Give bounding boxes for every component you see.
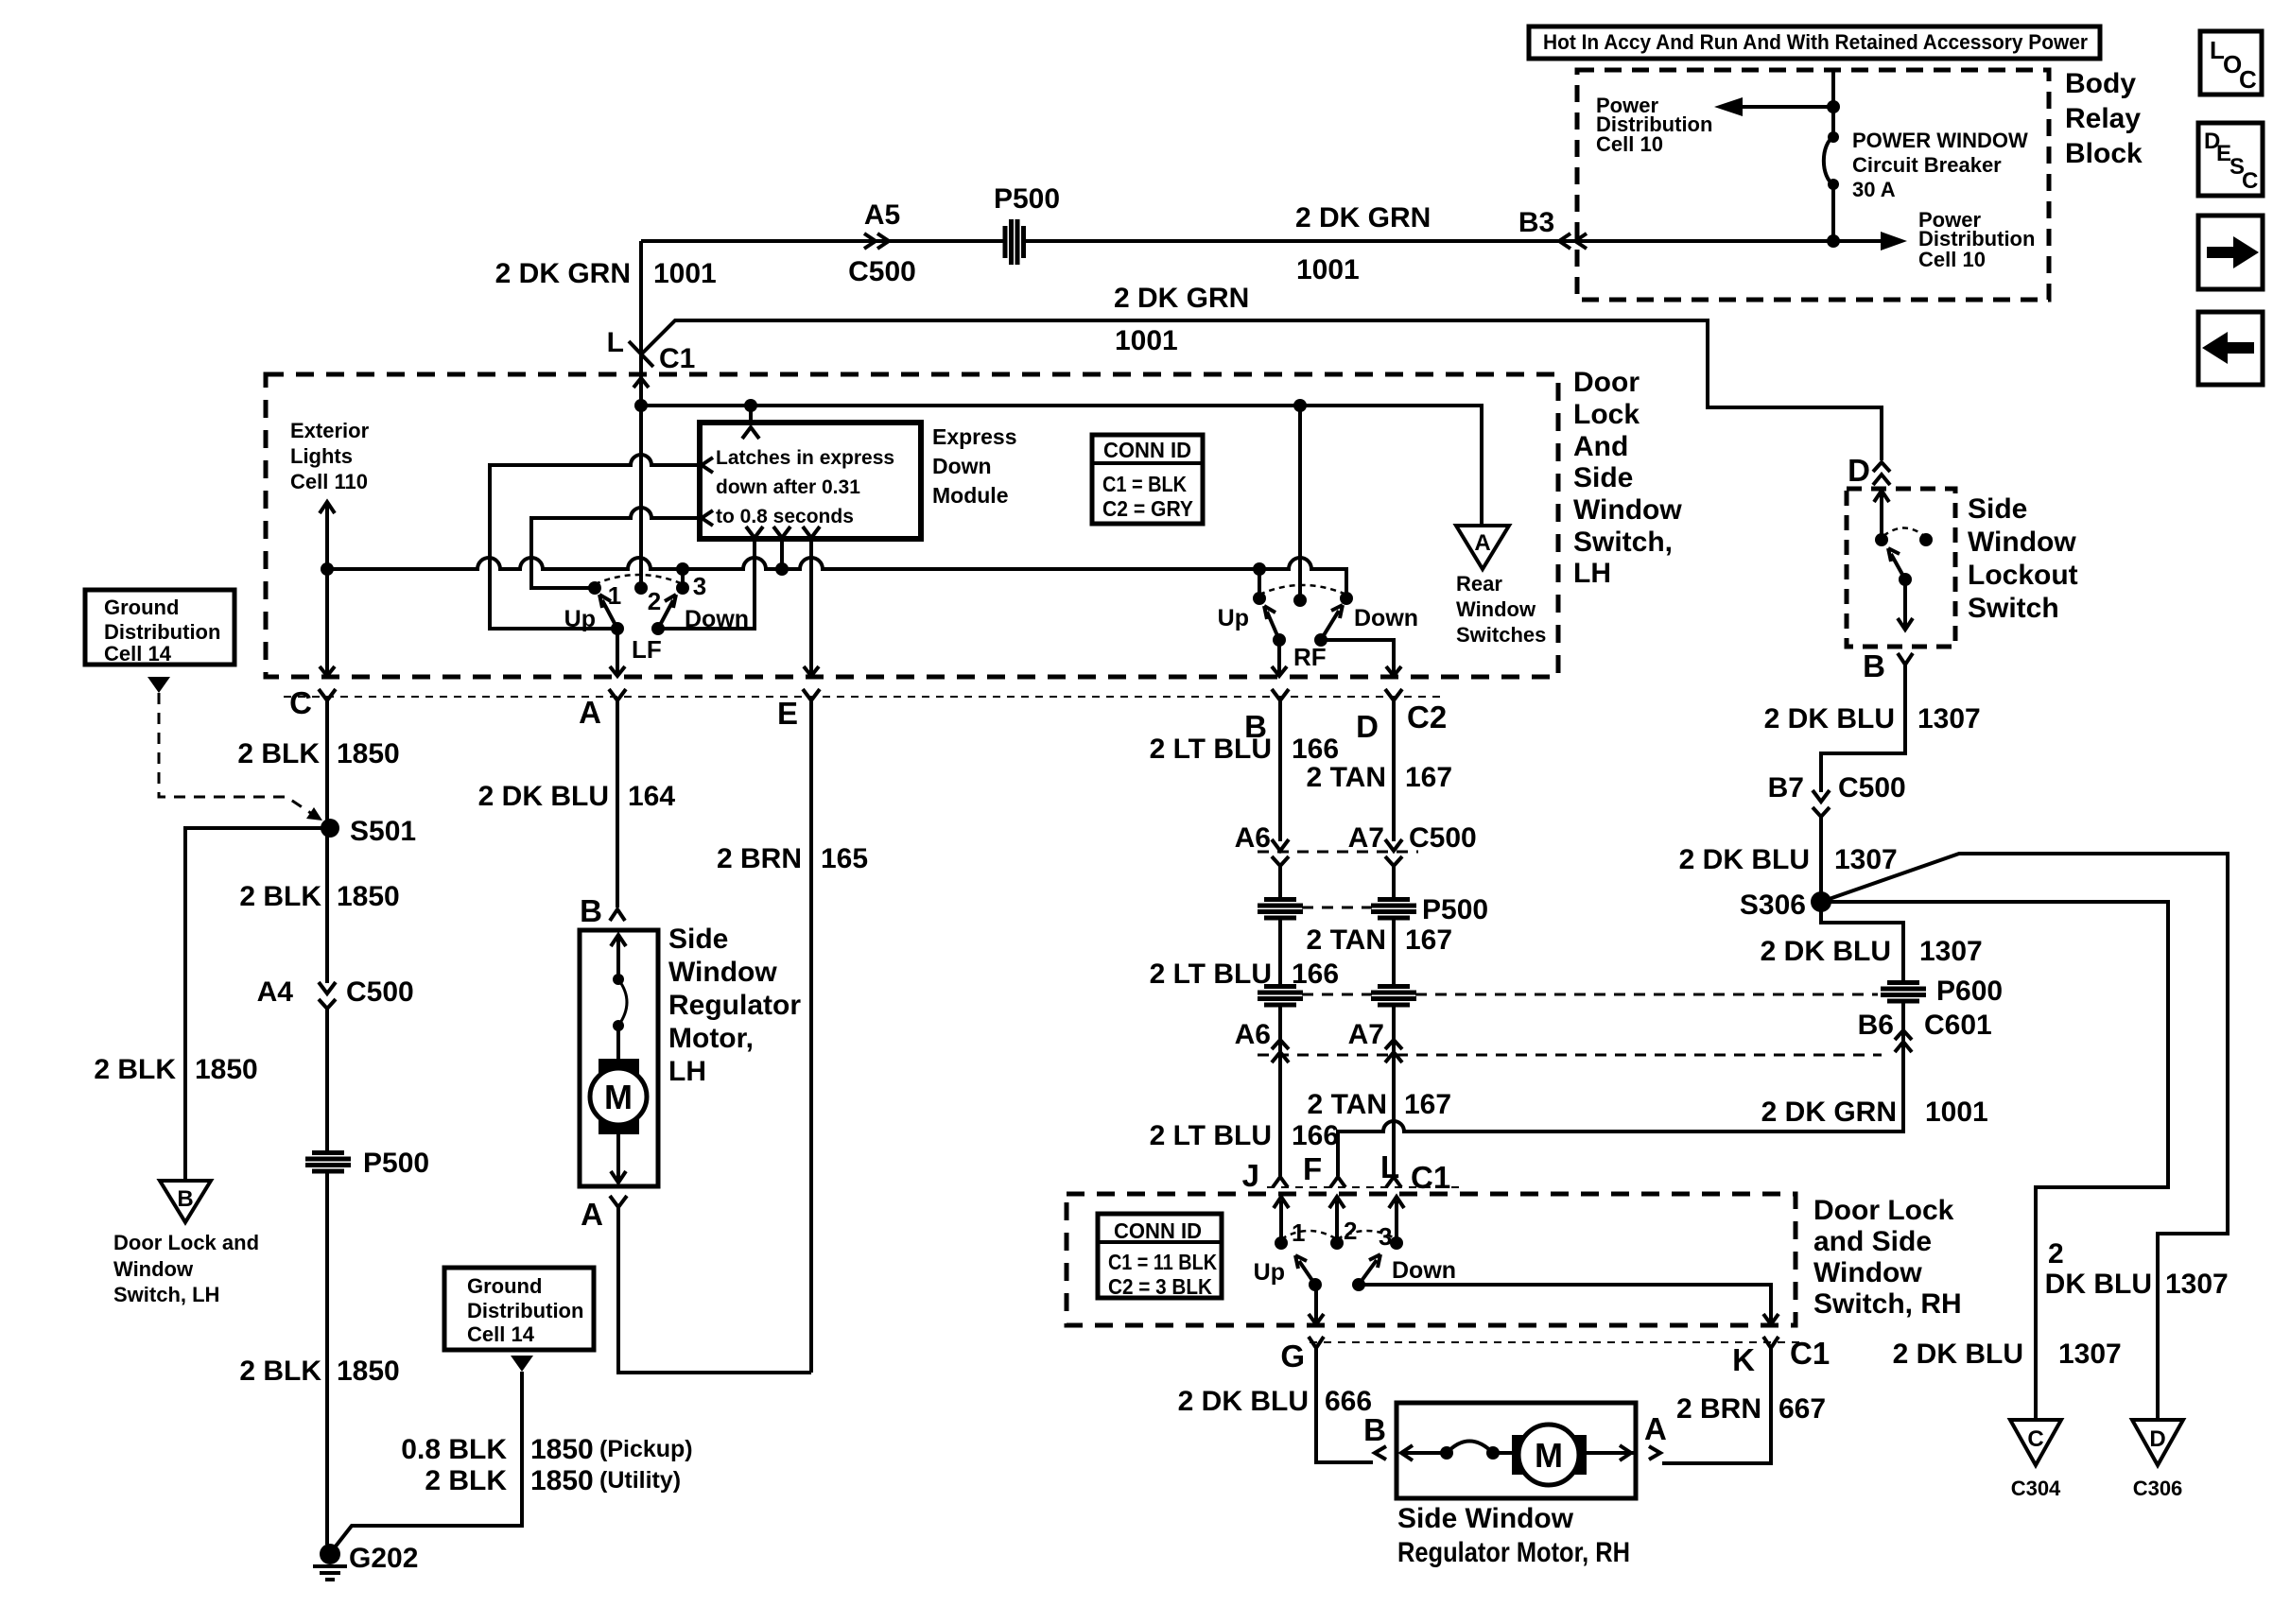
svg-text:POWER WINDOW: POWER WINDOW: [1852, 129, 2028, 152]
svg-text:2 BLK: 2 BLK: [425, 1465, 507, 1496]
connector G: [1309, 1337, 1324, 1348]
wire motor RH internal (arrows both ends): [1401, 1445, 1636, 1460]
tab arrow right: [2198, 216, 2263, 289]
svg-text:Block: Block: [2065, 138, 2143, 169]
wire LF contact3 stub: [676, 562, 689, 588]
svg-text:B: B: [1363, 1412, 1386, 1447]
connector A (Y): [609, 689, 626, 718]
connector C (Y): [319, 689, 336, 718]
svg-text:A: A: [579, 695, 601, 730]
svg-text:C2 = 3 BLK: C2 = 3 BLK: [1108, 1274, 1212, 1299]
svg-text:CONN ID: CONN ID: [1103, 438, 1191, 462]
label Power Distribution Cell 10 (lower): [1918, 208, 2035, 271]
svg-text:G: G: [1280, 1339, 1305, 1373]
label Power Distribution Cell 10 (upper): [1596, 94, 1712, 156]
pin chevron module top: [742, 427, 759, 439]
svg-text:1850: 1850: [530, 1465, 594, 1496]
svg-text:(Pickup): (Pickup): [599, 1436, 693, 1462]
wire arrow to power distribution (left): [1714, 97, 1833, 116]
triangle C C304: [2010, 1420, 2061, 1500]
svg-text:down after 0.31: down after 0.31: [716, 476, 860, 498]
wire G to motor B: [1316, 1348, 1373, 1462]
dashed connector line (A6 A7 to B6): [1258, 1054, 1882, 1057]
svg-text:1850: 1850: [337, 738, 400, 769]
wire module pinB to bus: [775, 538, 789, 576]
svg-text:P500: P500: [1422, 894, 1488, 925]
circuit breaker POWER WINDOW 30 A: [1824, 131, 1839, 190]
svg-text:Up: Up: [564, 606, 596, 632]
wire vertical drop to connector C1: [639, 241, 643, 376]
svg-text:to 0.8 seconds: to 0.8 seconds: [716, 506, 854, 527]
svg-text:A4: A4: [257, 976, 294, 1008]
svg-text:A: A: [1644, 1411, 1667, 1446]
dashed ground wire to S501: [159, 693, 322, 821]
svg-text:2 BRN: 2 BRN: [717, 843, 802, 874]
svg-text:2 LT BLU: 2 LT BLU: [1150, 734, 1272, 765]
svg-text:S501: S501: [350, 816, 416, 847]
svg-text:And: And: [1573, 431, 1628, 462]
svg-text:C2 = GRY: C2 = GRY: [1102, 496, 1193, 521]
svg-text:Ground: Ground: [467, 1274, 542, 1298]
svg-text:M: M: [604, 1078, 633, 1116]
svg-text:Side: Side: [1968, 493, 2027, 525]
svg-text:1001: 1001: [1296, 254, 1360, 285]
wire module pin1 to LF up throw: [490, 455, 702, 629]
pin chevron module bottom B: [773, 527, 790, 538]
connector row thin dashed (RH bottom C1): [1310, 1341, 1801, 1343]
svg-text:2 BLK: 2 BLK: [94, 1054, 176, 1085]
svg-text:C500: C500: [848, 256, 916, 287]
svg-text:164: 164: [628, 781, 675, 812]
svg-text:2 BRN: 2 BRN: [1676, 1393, 1761, 1425]
grommet (wire 166 lower): [1258, 984, 1303, 1005]
wire module pin2 to LF contact 1: [531, 508, 702, 588]
wire lockout B to B7: [1821, 665, 1905, 792]
svg-text:C304: C304: [2011, 1477, 2061, 1500]
rear window switches triangle A: [1456, 526, 1509, 569]
svg-text:L: L: [1380, 1149, 1399, 1184]
svg-text:1001: 1001: [653, 258, 717, 289]
svg-text:Up: Up: [1218, 605, 1249, 631]
label Express Down Module: [932, 424, 1017, 508]
svg-text:Body: Body: [2065, 68, 2136, 99]
grommet (wire 167 lower): [1371, 984, 1416, 1005]
svg-text:Cell 14: Cell 14: [467, 1322, 535, 1346]
svg-text:Window: Window: [1813, 1257, 1922, 1288]
svg-text:A: A: [581, 1197, 603, 1232]
svg-text:2: 2: [648, 587, 661, 615]
svg-text:Latches in express: Latches in express: [716, 447, 894, 469]
svg-text:M: M: [1535, 1436, 1563, 1475]
svg-text:Distribution: Distribution: [467, 1299, 583, 1322]
wire RF down throw to connector D: [1321, 640, 1401, 676]
wire RF up common to connector B: [1272, 640, 1287, 676]
label 1850 (Utility): [530, 1465, 681, 1496]
svg-text:1307: 1307: [2058, 1339, 2122, 1370]
connector K: [1763, 1337, 1778, 1348]
svg-text:3: 3: [693, 572, 706, 600]
svg-text:P500: P500: [994, 183, 1060, 215]
svg-text:Window: Window: [1456, 597, 1536, 621]
wire arrow into C (crossing box edge): [320, 666, 335, 676]
svg-text:A5: A5: [864, 199, 900, 231]
motor M (LH): [590, 1059, 647, 1134]
wire branch S501 to triangle B: [185, 828, 330, 1181]
svg-text:Window: Window: [1573, 494, 1682, 526]
connector row thin dashed line (C1 of LH switch): [284, 696, 1445, 698]
svg-text:Door: Door: [1573, 367, 1640, 398]
svg-text:Express: Express: [932, 424, 1017, 449]
svg-text:LF: LF: [632, 635, 662, 664]
wire contact to motor: [616, 1026, 620, 1059]
svg-text:2 DK BLU: 2 DK BLU: [1761, 936, 1891, 967]
svg-text:L: L: [607, 327, 624, 358]
pin chevron module left 2: [702, 510, 713, 526]
svg-text:A6: A6: [1235, 1019, 1271, 1050]
svg-text:LH: LH: [668, 1056, 706, 1087]
svg-text:C1 = BLK: C1 = BLK: [1102, 472, 1187, 496]
label 2 DK BLU 1307 (C304 wire): [1893, 1339, 2122, 1370]
wire motor to A (arrow down): [611, 1134, 626, 1183]
svg-text:D: D: [2149, 1426, 2165, 1452]
label 1850 (Pickup): [530, 1434, 693, 1465]
svg-text:Rear: Rear: [1456, 572, 1502, 596]
wire motor A return to connector E: [618, 1207, 811, 1373]
svg-text:Window: Window: [113, 1257, 194, 1281]
svg-text:Window: Window: [668, 957, 777, 988]
svg-text:166: 166: [1292, 1120, 1339, 1151]
grommet P500 (wire 167): [1371, 897, 1416, 918]
svg-text:1850: 1850: [337, 881, 400, 912]
label POWER WINDOW Circuit Breaker 30 A: [1852, 129, 2028, 201]
svg-text:B6: B6: [1858, 1010, 1894, 1041]
svg-text:Regulator: Regulator: [668, 990, 801, 1021]
wire breaker feed vertical: [1831, 70, 1835, 241]
tab arrow left: [2198, 312, 2263, 385]
wire 2 DK GRN 1001 (top feed, breaker to C1): [641, 239, 1883, 243]
splice S501: [321, 819, 339, 838]
svg-text:C500: C500: [1838, 772, 1906, 803]
svg-text:C1: C1: [1411, 1160, 1450, 1195]
internal switch contact (motor LH): [613, 974, 627, 1031]
svg-text:C: C: [2242, 168, 2258, 194]
svg-text:CONN ID: CONN ID: [1114, 1218, 1202, 1243]
connector J: [1273, 1177, 1288, 1187]
dashed connector line C500 (A6 A7): [1258, 851, 1418, 854]
svg-text:P600: P600: [1936, 976, 2003, 1007]
motor M (RH): [1512, 1425, 1587, 1485]
switch LF window: [564, 572, 749, 664]
internal switch contact (motor RH): [1440, 1442, 1500, 1460]
svg-text:B: B: [1863, 648, 1885, 683]
svg-text:C: C: [2239, 65, 2257, 94]
svg-text:Lock: Lock: [1573, 399, 1640, 430]
svg-text:Switch: Switch: [1968, 593, 2059, 624]
node module top pin junction: [744, 399, 757, 412]
wire arrow to power distribution (right): [1881, 232, 1907, 251]
svg-text:C: C: [289, 685, 312, 720]
wire supply bus (with bridges): [327, 558, 1346, 598]
svg-text:Lights: Lights: [290, 444, 353, 468]
svg-text:Ground: Ground: [104, 596, 179, 619]
svg-text:A6: A6: [1235, 822, 1271, 854]
svg-text:Exterior: Exterior: [290, 419, 370, 442]
wire LF common to connector A: [610, 629, 625, 676]
connector row thin dashed (RH top): [1267, 1186, 1461, 1188]
svg-text:Lockout: Lockout: [1968, 560, 2078, 591]
svg-text:2: 2: [2048, 1238, 2064, 1270]
svg-text:K: K: [1732, 1342, 1755, 1377]
svg-text:Side: Side: [668, 924, 728, 955]
grommet P600: [1881, 980, 1926, 1001]
svg-text:Cell 110: Cell 110: [290, 470, 368, 493]
svg-text:Module: Module: [932, 483, 1009, 508]
svg-text:B: B: [580, 893, 602, 928]
wire module pinC to connector E: [804, 538, 819, 676]
svg-text:1001: 1001: [1925, 1097, 1988, 1128]
svg-text:Down: Down: [1354, 605, 1418, 631]
svg-text:167: 167: [1404, 1089, 1451, 1120]
connector B6 C601 (up chevrons): [1895, 1030, 1912, 1052]
svg-text:B3: B3: [1518, 207, 1554, 238]
LH switch dashed box: [266, 374, 1558, 677]
svg-text:2 BLK: 2 BLK: [237, 738, 320, 769]
wire B7 to S306: [1819, 817, 1823, 902]
fuse title box: Hot In Accy: [1529, 26, 2100, 59]
svg-text:Up: Up: [1254, 1259, 1285, 1286]
svg-text:RF: RF: [1293, 643, 1327, 671]
svg-text:A: A: [1474, 530, 1490, 556]
svg-text:Door Lock: Door Lock: [1813, 1195, 1954, 1226]
svg-text:2 LT BLU: 2 LT BLU: [1150, 959, 1272, 990]
wire connector A to motor B: [616, 700, 619, 907]
svg-text:2 TAN: 2 TAN: [1308, 1089, 1387, 1120]
svg-text:C1 = 11 BLK: C1 = 11 BLK: [1108, 1250, 1217, 1274]
svg-text:and Side: and Side: [1813, 1226, 1932, 1257]
node (breaker top junction): [1827, 100, 1840, 113]
tab LOC: [2200, 31, 2262, 95]
svg-text:A7: A7: [1348, 822, 1384, 854]
connector B (motor RH): [1375, 1446, 1386, 1460]
svg-text:DK BLU: DK BLU: [2045, 1269, 2152, 1300]
svg-text:Door Lock and: Door Lock and: [113, 1231, 259, 1254]
connector F: [1330, 1177, 1345, 1187]
svg-text:2 DK GRN: 2 DK GRN: [1295, 202, 1431, 233]
svg-text:2 DK GRN: 2 DK GRN: [495, 258, 631, 289]
wire A4 to G202: [325, 1009, 329, 1545]
body relay block dashed box: [1577, 70, 2049, 300]
svg-text:2 DK BLU: 2 DK BLU: [1764, 703, 1895, 734]
wire RH up common to G: [1309, 1285, 1324, 1324]
connector A6 C500 (down): [1272, 839, 1289, 866]
pin chevron module bottom C: [803, 527, 820, 538]
svg-text:2 BLK: 2 BLK: [239, 881, 321, 912]
ground distribution cell 14 box (upper): [85, 590, 234, 665]
svg-text:2 DK GRN: 2 DK GRN: [1114, 283, 1249, 314]
label Side Window Regulator Motor, RH: [1397, 1503, 1630, 1568]
switch RF window: [1218, 562, 1418, 671]
dashed link to P600: [1302, 993, 1878, 996]
triangle D C306: [2132, 1420, 2183, 1500]
svg-text:1307: 1307: [1917, 703, 1981, 734]
svg-text:B7: B7: [1768, 772, 1804, 803]
svg-text:2 LT BLU: 2 LT BLU: [1150, 1120, 1272, 1151]
wire module top pin: [749, 406, 753, 424]
svg-text:Cell 14: Cell 14: [104, 642, 172, 665]
svg-text:667: 667: [1778, 1393, 1826, 1425]
svg-text:Motor,: Motor,: [668, 1023, 754, 1054]
svg-text:1307: 1307: [2165, 1269, 2229, 1300]
svg-text:C601: C601: [1924, 1010, 1992, 1041]
svg-text:G202: G202: [349, 1543, 418, 1574]
CONN ID table (RH): [1098, 1214, 1222, 1299]
wire ground cell to G202: [335, 1372, 522, 1547]
svg-text:Down: Down: [1392, 1257, 1456, 1284]
label Side Window Lockout Switch: [1968, 493, 2078, 624]
svg-text:C500: C500: [1409, 822, 1477, 854]
connector A4 C500 (arrow + chevrons): [319, 982, 336, 1009]
connector C1 L (inline X): [629, 341, 653, 367]
svg-text:Switches: Switches: [1456, 623, 1546, 647]
svg-text:166: 166: [1292, 734, 1339, 765]
wire RH down throw to K: [1359, 1285, 1778, 1324]
RH switch dashed box: [1067, 1194, 1796, 1325]
wire exterior lights feed (arrow up): [320, 502, 335, 673]
svg-text:1850: 1850: [337, 1356, 400, 1387]
connector D (lockout, up chevrons): [1873, 462, 1890, 485]
ground ref triangle lower (filled): [511, 1356, 533, 1372]
svg-text:Side: Side: [1573, 462, 1633, 493]
svg-text:Relay: Relay: [2065, 103, 2141, 134]
svg-text:Cell 10: Cell 10: [1918, 248, 1986, 271]
svg-text:2 DK BLU: 2 DK BLU: [478, 781, 609, 812]
svg-text:F: F: [1303, 1151, 1322, 1186]
connector B (motor LH): [610, 909, 625, 921]
svg-text:0.8 BLK: 0.8 BLK: [401, 1434, 507, 1465]
wire S306 to P600: [1821, 902, 1903, 1132]
triangle B door lock and window switch LH: [160, 1181, 211, 1222]
svg-text:167: 167: [1405, 762, 1452, 793]
svg-text:2 TAN: 2 TAN: [1307, 762, 1386, 793]
label Exterior Lights Cell 110: [290, 419, 370, 493]
svg-text:Regulator Motor, RH: Regulator Motor, RH: [1397, 1537, 1630, 1568]
svg-text:J: J: [1242, 1158, 1259, 1193]
svg-text:S306: S306: [1740, 890, 1806, 921]
node RF center pin junction: [1293, 399, 1307, 412]
svg-text:2 DK GRN: 2 DK GRN: [1761, 1097, 1897, 1128]
pin chevron module bottom A: [746, 527, 763, 538]
label 2 / DK BLU 1307 (C306 wire): [2045, 1238, 2229, 1300]
svg-text:1001: 1001: [1115, 325, 1178, 356]
label Side Window Regulator Motor, LH: [668, 924, 801, 1087]
grommet P500 (top wire): [1005, 219, 1026, 265]
svg-text:B: B: [177, 1186, 193, 1212]
svg-text:Down: Down: [932, 454, 992, 478]
svg-text:1307: 1307: [1834, 844, 1898, 875]
node (breaker bottom junction): [1827, 234, 1840, 248]
svg-text:167: 167: [1405, 924, 1452, 956]
connector E (Y): [803, 689, 820, 718]
svg-text:Hot In Accy And Run And With R: Hot In Accy And Run And With Retained Ac…: [1543, 30, 2088, 54]
svg-text:C306: C306: [2133, 1477, 2183, 1500]
connector D (Y): [1385, 689, 1402, 718]
svg-text:Switch, RH: Switch, RH: [1813, 1288, 1962, 1320]
wire connector E down: [809, 700, 813, 1373]
pin chevron module left 1: [702, 458, 713, 473]
wire module pinA to LF down throw: [662, 538, 755, 629]
svg-text:C: C: [2027, 1426, 2043, 1452]
connector A (motor LH): [610, 1196, 627, 1207]
connector B3 (double chevron): [1559, 233, 1587, 249]
connector A7 C500 (down): [1385, 839, 1402, 866]
motor RH case: [1397, 1403, 1636, 1498]
label Door Lock and Side Window Switch, RH: [1813, 1195, 1962, 1320]
svg-text:C500: C500: [346, 976, 414, 1008]
svg-text:Switch,: Switch,: [1573, 527, 1673, 558]
wire D to connector A7: [1392, 700, 1396, 841]
connector L: [1386, 1177, 1401, 1187]
connector A7 (up chevrons): [1385, 1040, 1402, 1063]
connector A6 (up chevrons): [1272, 1040, 1289, 1063]
svg-text:1307: 1307: [1919, 936, 1983, 967]
ground G202: [313, 1544, 347, 1580]
svg-text:Down: Down: [685, 606, 749, 632]
svg-text:1850: 1850: [195, 1054, 258, 1085]
wire S306 branch to C306 (upper diagonal): [1821, 854, 2228, 1420]
svg-text:C1: C1: [1790, 1336, 1830, 1371]
svg-text:Window: Window: [1968, 527, 2076, 558]
wire 2 DK GRN 1001 from B6 to F (with bridge): [1338, 1063, 1903, 1176]
wire 2 DK GRN 1001 (second feed to lockout switch): [641, 320, 1882, 460]
dashed link P500 pair: [1302, 907, 1372, 909]
svg-text:Circuit Breaker: Circuit Breaker: [1852, 153, 2002, 177]
label Body Relay Block: [2065, 68, 2143, 169]
svg-text:165: 165: [821, 843, 868, 874]
wire A6 to J: [1278, 866, 1282, 1176]
wire C1 main drop to LF contact 2: [633, 376, 649, 588]
CONN ID table (LH): [1092, 435, 1203, 524]
wire motor LH internal top (arrow up): [611, 935, 626, 979]
node main junction: [634, 399, 648, 412]
wire top distribution run (to RWS drop): [641, 406, 1482, 526]
label Door Lock And Side Window Switch, LH: [1573, 367, 1682, 589]
svg-text:2 DK BLU: 2 DK BLU: [1893, 1339, 2023, 1370]
svg-text:D: D: [1356, 709, 1379, 744]
ground ref triangle (filled): [147, 677, 170, 693]
node bus left end: [321, 562, 334, 576]
connector A (motor RH): [1649, 1446, 1660, 1460]
wire B to connector A6: [1278, 700, 1282, 841]
side window lockout switch dashed box: [1847, 489, 1955, 647]
svg-text:Side Window: Side Window: [1397, 1503, 1574, 1534]
svg-text:Distribution: Distribution: [104, 620, 220, 644]
grommet P500 (wire 166): [1258, 897, 1303, 918]
connector B7 C500 (arrow + chevrons): [1813, 790, 1830, 817]
svg-text:Cell 10: Cell 10: [1596, 132, 1663, 156]
svg-text:2 TAN: 2 TAN: [1307, 924, 1386, 956]
ground distribution cell 14 box (lower): [444, 1268, 594, 1350]
svg-text:(Utility): (Utility): [599, 1467, 681, 1494]
svg-text:LH: LH: [1573, 558, 1611, 589]
label Door Lock and Window Switch, LH: [113, 1231, 259, 1306]
svg-text:1850: 1850: [530, 1434, 594, 1465]
switch lockout (internal): [1874, 491, 1933, 630]
svg-text:A7: A7: [1348, 1019, 1384, 1050]
svg-text:D: D: [1848, 453, 1870, 488]
switch RH window: [1254, 1197, 1456, 1291]
svg-text:P500: P500: [363, 1148, 429, 1179]
connector B (lockout Y): [1898, 653, 1913, 665]
